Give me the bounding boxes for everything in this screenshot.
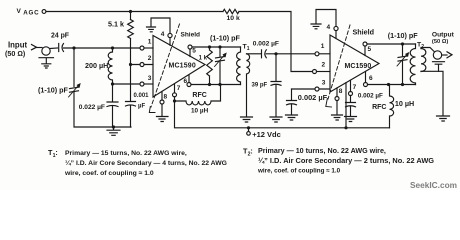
inductor L1 200uH (108, 48, 112, 84)
junction dot amp1 pin2 (129, 63, 132, 66)
wire amp1 pin3 row (113, 83, 141, 85)
shield hook amp2 (326, 99, 332, 108)
wire pin4 stub to edge (169, 38, 171, 46)
svg-text:+12 Vdc: +12 Vdc (252, 130, 281, 139)
amp2 pin4 circle (334, 26, 338, 30)
label T2 (417, 41, 424, 50)
ground 39pF (270, 117, 282, 122)
wire pin3 stub (144, 83, 153, 85)
junction dot L1 bottom (111, 82, 114, 85)
svg-text:0.022 µF: 0.022 µF (79, 104, 105, 111)
svg-text:0.002 µF: 0.002 µF (358, 93, 383, 100)
wire VAGC rail left (46, 11, 223, 13)
amp2 pin6 circle (364, 83, 368, 87)
wire +12V bus (175, 101, 390, 128)
node +12 Vdc terminal (247, 128, 251, 135)
ground C9 (345, 117, 357, 122)
amp1 pin3 circle (140, 82, 144, 86)
wire pin6 stub amp2 (365, 72, 367, 83)
junction dot 39pF tap (274, 52, 277, 55)
amp1 pin2 circle (140, 63, 144, 67)
wire C6 to amp2 pin1 (266, 53, 315, 55)
wire T1 secondary to C6 (247, 53, 261, 55)
svg-text:RFC: RFC (372, 104, 386, 111)
wire pin2 stub amp2 (317, 71, 331, 73)
svg-text:(1-10) pF: (1-10) pF (210, 34, 241, 43)
wire pin1 node down to trimmer C2 (73, 48, 75, 87)
node VAGC terminal circle (42, 10, 46, 14)
svg-text:8: 8 (164, 93, 168, 100)
wire jack to C1 (50, 47, 57, 50)
svg-text:Primary — 10 turns, No. 22 AWG: Primary — 10 turns, No. 22 AWG wire, (258, 147, 386, 155)
capacitor C3 0.022uF (107, 84, 118, 127)
junction dot pin7 node (173, 99, 176, 102)
svg-text:(50 Ω): (50 Ω) (5, 49, 26, 58)
svg-text:0.002 µF: 0.002 µF (298, 93, 328, 102)
svg-text:2: 2 (322, 61, 326, 68)
svg-text:1: 1 (321, 43, 325, 50)
wire pin4 to ground amp2 (316, 10, 336, 27)
junction dot 1k bottom (208, 83, 211, 86)
junction dot 1k top (208, 45, 211, 48)
wire pin8 stub amp2 (336, 88, 338, 115)
wire pin4 stub amp2 (335, 31, 337, 39)
junction dot RFC2 top (387, 83, 390, 86)
wire amp1 pin5 rail (192, 46, 241, 48)
svg-text:wire, coef. of coupling ≈ 1.0: wire, coef. of coupling ≈ 1.0 (64, 170, 154, 177)
op-amp U2 MC1590 triangle (330, 35, 379, 92)
svg-text:¼” I.D. Air Core Secondary — 2: ¼” I.D. Air Core Secondary — 2 turns, No… (258, 156, 434, 165)
transformer T2 secondary (421, 49, 426, 72)
svg-text:6: 6 (369, 75, 373, 82)
wire pin2 node down to C4 (130, 65, 132, 101)
junction dot trimmer C5 top (218, 45, 221, 48)
ground C8 (286, 115, 298, 120)
svg-text:39 pF: 39 pF (252, 82, 268, 88)
wire pin5 stub to edge (189, 49, 191, 57)
junction dot 5.1k tap (129, 10, 132, 13)
amp2 pin2 circle (313, 70, 317, 74)
svg-text::: : (250, 147, 252, 156)
capacitor C8 0.002uF amp2 pin3 (287, 101, 297, 115)
svg-text:(1-10) pF: (1-10) pF (388, 31, 419, 40)
ground amp1 pin4 (147, 27, 156, 32)
svg-text:MC1590: MC1590 (169, 63, 196, 70)
svg-text:1: 1 (247, 46, 250, 52)
label T1 (243, 43, 250, 52)
amp2 pin5 circle (363, 42, 367, 46)
junction dot +12V tap (247, 126, 250, 129)
label T2 winding note (243, 147, 434, 175)
wire amp2 pin3 row (292, 88, 331, 90)
svg-text:MC1590: MC1590 (345, 63, 372, 70)
amp1 pin1 circle (140, 46, 144, 50)
svg-text:1: 1 (148, 39, 152, 46)
wire amp1 pin6 rail (191, 84, 241, 86)
input jack shell ground (39, 58, 54, 68)
wire VAGC rail right + drop to amp2 pin2 (239, 12, 313, 72)
wire pin8 stub (161, 91, 163, 116)
amp1 pin6 circle (187, 83, 191, 87)
wire amp2 pin6 rail (368, 84, 416, 86)
capacitor C1 24pF (59, 44, 64, 52)
wire input to jack (37, 47, 43, 49)
svg-text:5: 5 (368, 46, 372, 53)
svg-text:4: 4 (327, 24, 331, 31)
node VAGC label (17, 8, 40, 17)
svg-text:0.001: 0.001 (134, 93, 150, 99)
ground amp2 pin4 (311, 24, 321, 29)
amp1 pin8 circle (160, 100, 164, 104)
output arrow (447, 52, 452, 58)
wire pin7 bypass stub (350, 81, 352, 103)
svg-text:Shield: Shield (181, 31, 201, 38)
inductor RFC2 10uH (390, 85, 394, 128)
svg-text:SeekIC.com: SeekIC.com (410, 180, 457, 190)
shield dashed line amp2 (328, 25, 350, 99)
transformer T2 primary (410, 44, 415, 85)
svg-text:Output: Output (432, 32, 455, 39)
svg-text:(50 Ω): (50 Ω) (432, 39, 448, 45)
shield dashed line amp1 (151, 24, 180, 107)
resistor R3 1k (207, 47, 213, 85)
ground bus ground symbol (107, 127, 120, 135)
wire 5.1k down to pin2 node (130, 12, 132, 65)
wire pin7 stub (174, 84, 176, 93)
junction dot trimmer C10 top (401, 42, 404, 45)
svg-text:µF: µF (138, 103, 145, 109)
svg-text:RFC: RFC (192, 92, 206, 99)
amp2 pin3 circle (315, 87, 319, 91)
transformer T1 secondary (247, 54, 250, 117)
wire pin3 down branch (291, 89, 293, 100)
junction dot trimmer C10 bottom (401, 83, 404, 86)
trimmer capacitor C2 (1-10)pF (69, 83, 81, 97)
ground output (437, 116, 450, 121)
ground amp1 pin8 (157, 117, 169, 122)
junction dot ground bus (112, 125, 115, 128)
wire pin2 stub (133, 64, 154, 66)
svg-text:3: 3 (322, 79, 326, 86)
inductor RFC1 10uH (175, 85, 221, 105)
wire C1 to amp1 pin1 (64, 47, 141, 49)
svg-text::: : (55, 148, 57, 157)
svg-text:200 µH: 200 µH (85, 61, 108, 70)
label Output (50 ohm) (432, 32, 455, 45)
amp1 pin7 circle (173, 93, 177, 97)
svg-text:(1-10) pF: (1-10) pF (38, 86, 69, 95)
svg-text:2: 2 (148, 55, 152, 62)
label Input (50 ohm) (5, 41, 27, 58)
svg-text:3: 3 (148, 75, 152, 82)
svg-text:5.1 k: 5.1 k (108, 20, 124, 29)
ground amp2 pin8 (332, 115, 343, 120)
shield hook amp1 (149, 107, 155, 113)
wire pin4 to ground (151, 18, 170, 33)
wire pin5 stub amp2 (364, 46, 366, 56)
svg-text:24 pF: 24 pF (51, 33, 69, 40)
svg-text:0.002 µF: 0.002 µF (253, 40, 279, 47)
svg-text:Shield: Shield (353, 27, 375, 36)
capacitor C7 39pF (271, 54, 281, 117)
svg-text:5: 5 (192, 47, 196, 54)
wire pin1 stub amp2 (319, 53, 330, 55)
amp2 pin7 bypass circle (349, 92, 353, 96)
svg-text:wire, coef. of coupling ≈ 1.0: wire, coef. of coupling ≈ 1.0 (257, 168, 341, 175)
amp2 pin1 circle (315, 52, 319, 56)
wire pin6 stub to edge (188, 75, 190, 83)
trimmer capacitor C10 (1-10)pF (397, 44, 409, 85)
wire trimmer C2 to ground bus (74, 93, 131, 128)
junction dot L1 top (111, 46, 114, 49)
label 0.001 uF (134, 93, 150, 109)
junction dot trimmer C2 tap (72, 46, 75, 49)
op-amp U1 MC1590 triangle (153, 36, 205, 98)
wire amp2 pin5 rail (367, 43, 416, 45)
svg-text:¼” I.D. Air Core Secondary — 4: ¼” I.D. Air Core Secondary — 4 turns, No… (65, 159, 227, 167)
output jack shell ground (433, 62, 445, 72)
capacitor C9 0.002uF amp2 pin7 (346, 103, 356, 117)
capacitor C4 0.001uF (126, 102, 136, 128)
svg-text:10 µH: 10 µH (395, 99, 414, 108)
resistor R1 5.1k (128, 20, 134, 39)
ground T1 secondary (241, 117, 253, 122)
amp1 pin4 circle (168, 33, 172, 37)
wire pin7 to junction (174, 97, 176, 101)
svg-text:7: 7 (353, 84, 357, 91)
transformer T1 primary (237, 47, 241, 85)
resistor R2 10k (223, 9, 239, 13)
svg-text:7: 7 (177, 85, 181, 92)
amp1 pin5 circle (188, 45, 192, 49)
output jack J2 (433, 51, 441, 59)
wire jack to arrow (442, 54, 447, 56)
svg-text:Primary — 15 turns, No. 22 AWG: Primary — 15 turns, No. 22 AWG wire, (65, 150, 187, 157)
svg-text:AGC: AGC (23, 10, 39, 17)
label T1 winding note (48, 148, 227, 177)
svg-text:V: V (17, 8, 22, 15)
wire pin1 stub (144, 47, 153, 49)
svg-text:1 k: 1 k (199, 55, 208, 61)
svg-text:10 µH: 10 µH (191, 108, 209, 115)
svg-text:4: 4 (161, 31, 165, 38)
svg-text:8: 8 (339, 88, 343, 95)
wire amp2 pin7 V+ drop (345, 83, 347, 128)
input arrow (32, 45, 37, 50)
wire T2 secondary top to jack (421, 48, 434, 52)
amp2 pin8 circle (335, 97, 339, 101)
svg-text:6: 6 (184, 78, 188, 85)
capacitor C6 0.002uF series (262, 50, 267, 58)
junction dot pin7 bus (344, 126, 347, 129)
input jack J1 (42, 47, 50, 55)
wire T2 secondary return (421, 71, 443, 115)
junction dot trimmer C5 bottom (218, 83, 221, 86)
svg-text:10 k: 10 k (227, 15, 240, 22)
trimmer capacitor C5 (1-10)pF (215, 47, 227, 85)
